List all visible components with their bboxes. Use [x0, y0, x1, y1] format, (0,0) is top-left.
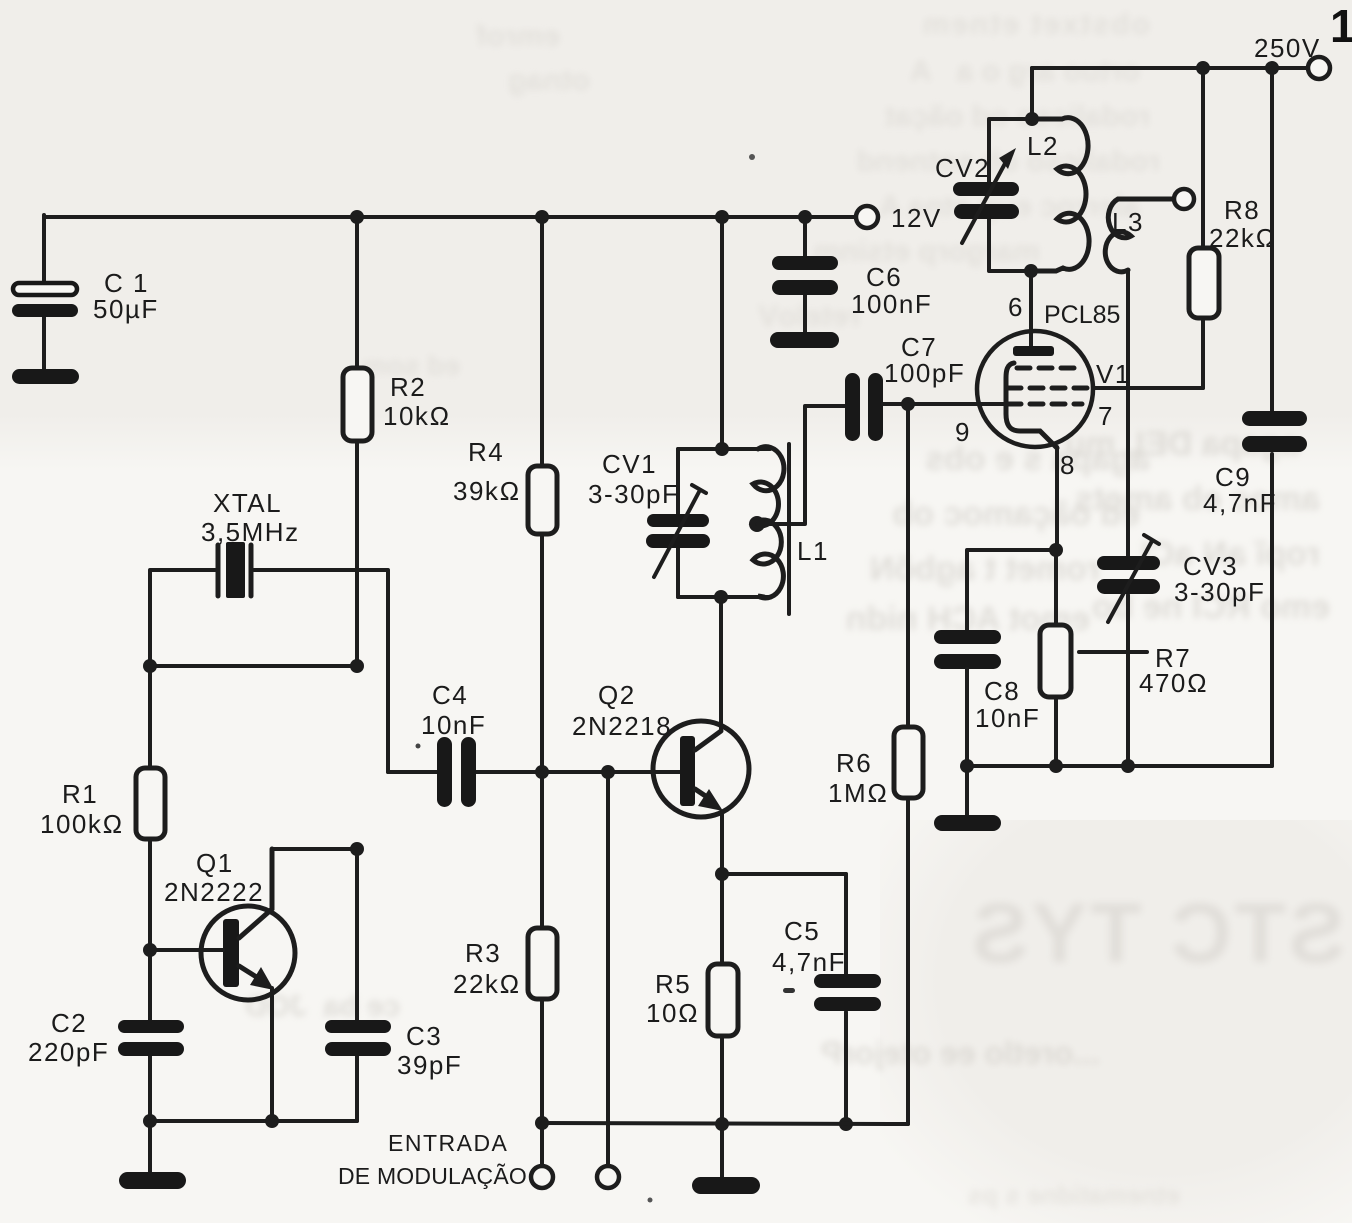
capacitor C2 — [28, 1008, 184, 1067]
svg-text:100nF: 100nF — [851, 289, 932, 319]
svg-text:2N2222: 2N2222 — [164, 877, 264, 907]
inductor L1 — [753, 447, 829, 598]
wire Q1 collector to R2 line — [272, 847, 357, 851]
resistor R8 — [1189, 195, 1277, 318]
ghost bleed-through text — [620, 8, 1150, 42]
svg-text:6: 6 — [1008, 292, 1024, 322]
node junction C7/R6 — [901, 397, 915, 411]
label ENTRADA DE MODULACAO — [338, 1130, 527, 1189]
node junction bus/CV3 — [1121, 759, 1135, 773]
wire tube plate pin 6 — [1008, 271, 1031, 347]
svg-text:100pF: 100pF — [884, 358, 965, 388]
svg-text:8: 8 — [1060, 450, 1076, 480]
node junction rail/R8 — [1196, 61, 1210, 75]
svg-text:39kΩ: 39kΩ — [453, 476, 521, 506]
wire C7 to tube grid pin 9 — [883, 404, 1004, 447]
ground below C8 — [934, 815, 1001, 831]
svg-text:220pF: 220pF — [28, 1037, 109, 1067]
node junction bus/emitter — [265, 1114, 279, 1128]
capacitor C8 — [934, 630, 1040, 733]
terminal 12V — [856, 203, 942, 233]
svg-text:R3: R3 — [465, 938, 501, 968]
terminal modulation input 2 — [597, 1166, 619, 1188]
wire 250V rail — [1032, 66, 1319, 70]
svg-text:1MΩ: 1MΩ — [828, 778, 889, 808]
svg-text:39pF: 39pF — [397, 1050, 462, 1080]
capacitor C6 — [772, 256, 932, 319]
wire C8 top link — [967, 550, 1056, 632]
wire L2 tank feed — [1030, 68, 1034, 119]
svg-text:V1: V1 — [1096, 359, 1131, 389]
wire R2 branch — [355, 217, 359, 666]
svg-text:L1: L1 — [797, 536, 829, 566]
tank L1/CV1 bottom wire — [678, 595, 770, 599]
node junction pin8/C8 — [1049, 543, 1063, 557]
capacitor C9 — [1203, 411, 1307, 518]
ground below C1 — [12, 369, 79, 384]
wire modulation input 2 — [606, 772, 610, 1165]
wire emitter bus R5/C5 — [722, 872, 846, 876]
wire C5 branch — [844, 874, 848, 1124]
svg-text:DE MODULAÇÃO: DE MODULAÇÃO — [338, 1163, 527, 1189]
wire tube cathode pin 8 — [1055, 447, 1059, 550]
svg-text:CV1: CV1 — [602, 449, 657, 479]
resistor R1 — [40, 768, 165, 839]
svg-text:R2: R2 — [390, 372, 426, 402]
svg-text:470Ω: 470Ω — [1139, 668, 1208, 698]
terminal 250V — [1254, 33, 1330, 79]
scan speck 1 — [749, 154, 755, 160]
capacitor C7 — [845, 332, 965, 441]
node junction rail/R4 — [535, 210, 549, 224]
svg-text:100kΩ: 100kΩ — [40, 809, 124, 839]
node junction R5/ground bus — [715, 1117, 729, 1131]
svg-text:R1: R1 — [62, 779, 98, 809]
core bar of L1 — [787, 444, 791, 614]
tube V1 PCL85 — [977, 301, 1131, 480]
resistor R4 — [453, 437, 557, 534]
node junction C4/R4R3 — [535, 765, 549, 779]
figure number 1 — [1330, 0, 1352, 52]
transistor Q1 2N2222 — [164, 848, 295, 1000]
svg-text:10nF: 10nF — [421, 710, 486, 740]
svg-text:2N2218: 2N2218 — [572, 711, 672, 741]
svg-text:22kΩ: 22kΩ — [1209, 223, 1277, 253]
variable capacitor CV3 — [1097, 535, 1265, 622]
node junction R3/ground bus — [535, 1116, 549, 1130]
svg-text:PCL85: PCL85 — [1044, 301, 1120, 329]
svg-text:50µF: 50µF — [93, 294, 159, 324]
svg-text:10nF: 10nF — [975, 703, 1040, 733]
svg-text:1: 1 — [1330, 0, 1352, 52]
node L1 tap — [749, 516, 765, 532]
node junction base/R1 — [143, 943, 157, 957]
wire CV2 branch — [989, 119, 1032, 271]
wire R3 branch — [540, 772, 544, 1165]
wire L3 to CV3 — [1126, 271, 1130, 766]
wire Q2 collector — [719, 597, 723, 731]
svg-text:4,7nF: 4,7nF — [1203, 488, 1277, 518]
capacitor C5 — [772, 916, 881, 1011]
wire R7 branch — [1054, 550, 1058, 766]
node junction tank2 top — [1025, 112, 1039, 126]
node junction tank bottom — [714, 590, 728, 604]
resistor R3 — [453, 928, 557, 999]
svg-text:ENTRADA: ENTRADA — [388, 1130, 508, 1156]
svg-text:C8: C8 — [984, 676, 1020, 706]
resistor R5 — [646, 964, 738, 1036]
svg-text:C4: C4 — [432, 680, 468, 710]
svg-text:L2: L2 — [1027, 131, 1059, 161]
node junction C5/ground bus — [839, 1117, 853, 1131]
ground below C6 — [770, 332, 839, 348]
svg-text:7: 7 — [1098, 401, 1114, 431]
wire tank feed from rail — [720, 217, 724, 449]
tank L1/CV1 top wire — [678, 447, 770, 451]
svg-text:3,5MHz: 3,5MHz — [201, 517, 300, 547]
inductor L3 — [1105, 199, 1173, 272]
svg-text:22kΩ: 22kΩ — [453, 969, 521, 999]
wire C3 branch — [355, 849, 359, 1121]
svg-text:Q1: Q1 — [196, 848, 234, 878]
wire bottom ground bus left — [150, 1119, 357, 1123]
transistor Q2 2N2218 — [572, 680, 749, 817]
node junction XTAL/R2 — [350, 659, 364, 673]
terminal modulation input 1 — [531, 1166, 553, 1188]
resistor R7 — [1040, 625, 1208, 698]
wire R6 branch — [906, 404, 910, 1124]
wire XTAL loop top — [150, 570, 388, 772]
wire screen bus bottom — [967, 764, 1272, 768]
svg-text:9: 9 — [955, 417, 971, 447]
wire C4 input coupling — [388, 770, 680, 774]
svg-text:R6: R6 — [836, 748, 872, 778]
svg-text:R4: R4 — [468, 437, 504, 467]
capacitor C4 — [421, 680, 486, 807]
svg-text:3-30pF: 3-30pF — [1174, 577, 1265, 607]
wire bottom ground bus right — [542, 1123, 908, 1124]
node junction tank2 bottom — [1024, 264, 1038, 278]
node junction rail/C6 — [798, 210, 812, 224]
crystal XTAL 3,5MHz — [201, 488, 300, 598]
wire tube plate pin 7 to R8 — [1093, 386, 1203, 390]
wire R8 branch — [1201, 68, 1205, 388]
node junction bus/R1 — [143, 1114, 157, 1128]
wire L1 tap to C7 — [757, 406, 845, 524]
wire C6 branch — [803, 217, 807, 334]
variable capacitor CV2 — [935, 148, 1019, 243]
svg-text:R8: R8 — [1224, 195, 1260, 225]
wire Q2 emitter — [720, 812, 724, 874]
node junction emitter/R5 — [715, 867, 729, 881]
svg-text:CV2: CV2 — [935, 153, 990, 183]
svg-text:L3: L3 — [1112, 207, 1144, 237]
node junction rail/C9 — [1265, 61, 1279, 75]
svg-text:C3: C3 — [406, 1021, 442, 1051]
svg-text:XTAL: XTAL — [213, 488, 282, 518]
wire R1 branch — [148, 666, 152, 1121]
svg-text:R5: R5 — [655, 969, 691, 999]
wire 12V supply rail — [44, 215, 867, 219]
node junction rail/tank feed — [715, 210, 729, 224]
wire CV1 branch — [676, 449, 680, 597]
resistor R6 — [828, 727, 923, 808]
svg-text:C5: C5 — [784, 916, 820, 946]
wire Q1 emitter down — [270, 988, 274, 1121]
node junction collector/R2 — [350, 842, 364, 856]
wire C1 branch — [42, 215, 46, 370]
svg-text:250V: 250V — [1254, 33, 1321, 63]
wire R5 branch — [720, 874, 724, 1178]
node junction rail/R2 — [350, 210, 364, 224]
svg-text:10Ω: 10Ω — [646, 998, 699, 1028]
capacitor C1 — [12, 268, 159, 324]
wire Q1 base — [150, 948, 223, 952]
svg-text:12V: 12V — [891, 203, 942, 233]
capacitor C3 — [325, 1020, 462, 1080]
svg-text:3-30pF: 3-30pF — [588, 479, 679, 509]
svg-text:C6: C6 — [866, 262, 902, 292]
wire ground stub Q1 — [148, 1121, 152, 1175]
wire C9 branch — [1270, 68, 1274, 766]
terminal L3 output — [1174, 189, 1194, 209]
node junction bus/C8 — [960, 759, 974, 773]
svg-text:4,7nF: 4,7nF — [772, 947, 846, 977]
node junction bus/R7 — [1049, 759, 1063, 773]
inductor L2 — [1027, 118, 1089, 271]
svg-text:Q2: Q2 — [598, 680, 636, 710]
svg-text:C2: C2 — [51, 1008, 87, 1038]
wire XTAL loop bottom — [150, 664, 357, 668]
variable capacitor CV1 — [588, 449, 710, 577]
wire C8 to ground — [965, 669, 969, 818]
svg-text:10kΩ: 10kΩ — [383, 401, 451, 431]
ground below R5 — [692, 1177, 760, 1194]
node junction XTAL/R1 — [143, 659, 157, 673]
scan speck 3 — [783, 988, 795, 993]
wire R4 branch — [540, 217, 544, 772]
scan speck 2 — [416, 744, 421, 749]
node junction tank top — [715, 442, 729, 456]
resistor R2 — [343, 368, 451, 441]
ground below Q1 stage — [119, 1172, 186, 1189]
scan speck 4 — [648, 1198, 653, 1203]
node junction C4/mod input — [601, 765, 615, 779]
